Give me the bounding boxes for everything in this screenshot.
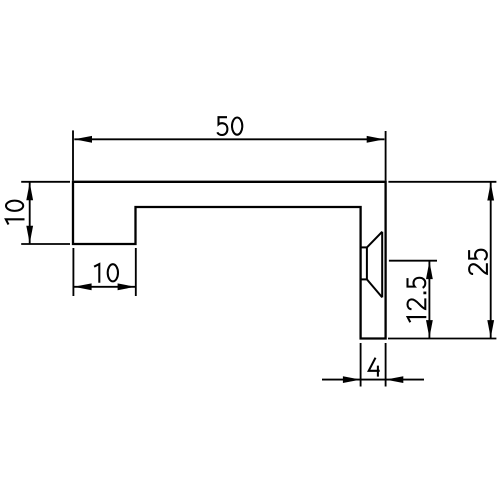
dim text 25 (rotated) <box>469 250 487 274</box>
dim 25 arrow bottom <box>487 320 494 338</box>
arrowheads <box>26 136 494 383</box>
dim 50: line <box>74 138 384 140</box>
dim 50: extension left <box>72 130 74 180</box>
hole top line <box>361 246 367 248</box>
countersink top slant <box>367 232 382 248</box>
dim 50: extension right <box>385 131 387 181</box>
dim 50 arrow left <box>74 136 92 143</box>
dim 25: line <box>490 182 492 338</box>
dim 10 bottom arrow left <box>74 283 92 290</box>
dim 4: line <box>322 379 424 381</box>
dim 25/12.5: extension bottom <box>388 338 496 340</box>
countersunk screw detail <box>361 232 383 298</box>
dim 10 bottom arrow right <box>118 283 136 290</box>
dim 10 left arrow bottom <box>26 226 33 244</box>
dim 12.5 arrow top <box>426 261 433 279</box>
dim 10 left: extension bottom <box>21 243 70 245</box>
dim 10 bottom: extension right <box>135 248 137 296</box>
dim 10 left: extension top <box>21 181 70 183</box>
countersink right vertical <box>381 232 383 298</box>
dim 12.5: extension top <box>389 260 437 262</box>
countersink bottom slant <box>367 279 382 297</box>
countersink small vertical <box>366 247 368 279</box>
hole bottom line <box>361 278 367 280</box>
dim 10 bottom: extension left <box>72 248 74 296</box>
dim text 50 <box>217 117 242 135</box>
dim text 12.5 (rotated) <box>408 278 427 323</box>
dim 4: extension right <box>385 343 387 387</box>
dim 25: extension top <box>388 181 496 183</box>
dim text 10 left (rotated) <box>6 201 25 225</box>
dim text 10 bottom <box>94 264 118 283</box>
dim 12.5 arrow bottom <box>426 320 433 338</box>
dim 4 arrow left (outside) <box>343 376 361 383</box>
dim 4: extension left <box>360 343 362 387</box>
dim 10 bottom: line <box>74 286 136 288</box>
dim 10 left arrow top <box>26 183 33 201</box>
dim 10 left: line <box>29 182 31 244</box>
dimension lines <box>21 130 496 386</box>
dim 50 arrow right <box>367 136 385 143</box>
profile outline <box>73 182 386 339</box>
dim 12.5: line <box>428 261 430 338</box>
dim 4 arrow right (outside) <box>386 376 404 383</box>
dim text 4 <box>369 358 380 377</box>
dim 25 arrow top <box>487 183 494 201</box>
